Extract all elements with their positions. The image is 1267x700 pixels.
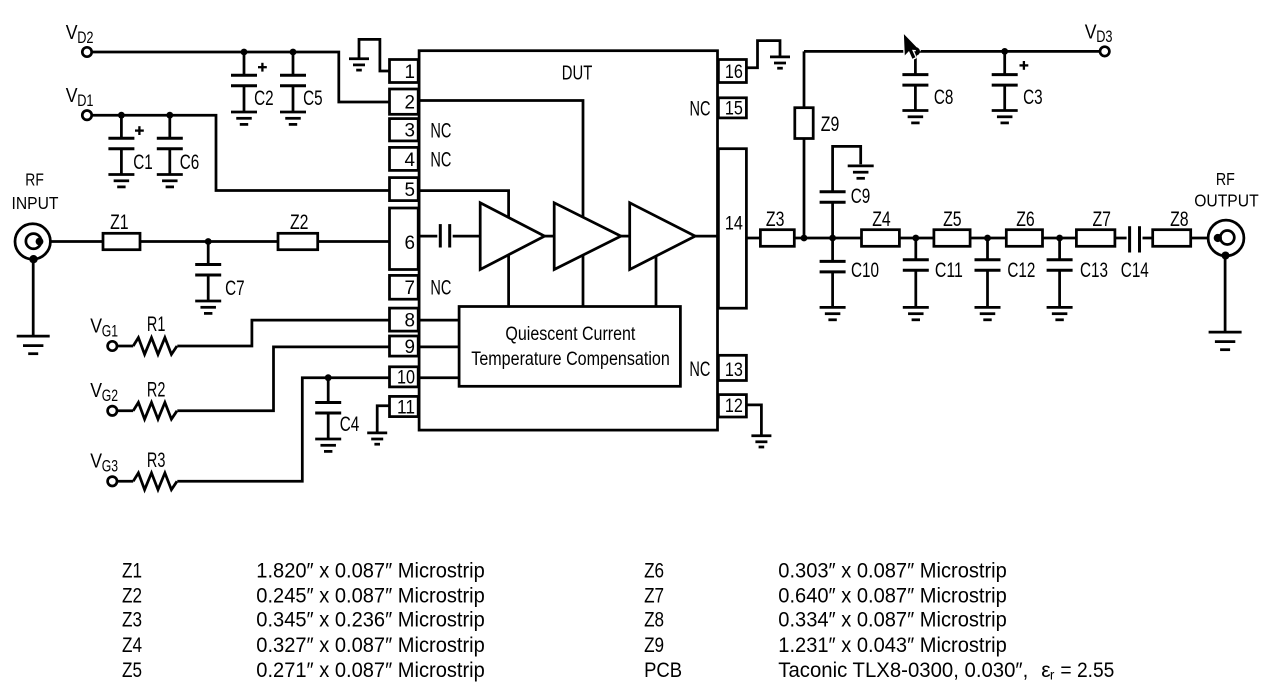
wire R1 to pin 8 [177,320,389,346]
svg-text:0.271″ x 0.087″ Microstrip: 0.271″ x 0.087″ Microstrip [256,659,485,682]
svg-text:Z3: Z3 [122,609,142,632]
wire pin 14 to Z3 [746,237,760,240]
svg-text:C13: C13 [1080,259,1108,282]
wire output connector to ground [1224,257,1227,332]
node VD1/C6 junction [166,112,173,119]
capacitor C10 [820,238,879,320]
wire A2 to compensation block [582,255,585,306]
wire Z7 to C14 [1115,237,1127,240]
NC label pin 7 [430,276,451,299]
capacitor C1 [108,115,152,187]
wire pin 8 to compensation block [418,319,459,322]
svg-text:0.245″ x 0.087″ Microstrip: 0.245″ x 0.087″ Microstrip [256,584,485,607]
svg-text:10: 10 [397,368,415,389]
svg-text:Z4: Z4 [872,208,891,231]
svg-text:C2: C2 [254,87,274,110]
svg-text:C1: C1 [133,151,153,174]
quiescent current block [459,307,680,387]
svg-text:Z8: Z8 [1170,208,1189,231]
impedance Z6 [1006,208,1042,246]
svg-text:G3: G3 [102,458,118,476]
terminal VD1 [66,85,94,120]
capacitor C3 [992,51,1043,123]
pin 7 [390,275,419,299]
ground RF input [17,336,50,354]
svg-text:Temperature Compensation: Temperature Compensation [471,348,670,370]
svg-text:C6: C6 [180,151,200,174]
svg-text:0.334″ x 0.087″ Microstrip: 0.334″ x 0.087″ Microstrip [778,609,1007,632]
terminal VD2 [66,22,94,57]
svg-text:12: 12 [725,396,743,417]
NC label pin 3 [430,119,451,142]
node C3 junction [1001,48,1008,55]
wire coupling cap to amp A1 [453,235,481,238]
svg-text:1.820″ x 0.087″ Microstrip: 1.820″ x 0.087″ Microstrip [256,560,485,583]
wire input connector to Z1 [50,240,103,243]
wire Z4 to Z5 [899,237,934,240]
impedance Z5 [934,208,970,246]
svg-text:Z3: Z3 [766,208,785,231]
capacitor C14 [1121,226,1149,282]
svg-text:C8: C8 [934,86,954,109]
svg-text:4: 4 [405,150,416,171]
pin 12 [718,395,746,418]
svg-text:Z4: Z4 [122,634,142,657]
capacitor C7 [195,242,244,314]
svg-text:0.640″ x 0.087″ Microstrip: 0.640″ x 0.087″ Microstrip [778,584,1007,607]
svg-text:Z8: Z8 [644,609,664,632]
wire pin 11 to ground [377,406,389,433]
pin 5 [390,178,419,201]
wire R3 to pin 10 [177,378,389,482]
svg-text:Z6: Z6 [1016,208,1034,231]
svg-text:Z5: Z5 [122,659,142,682]
svg-text:13: 13 [725,360,743,381]
op-amp A3 [630,203,696,270]
svg-text:0.345″ x 0.236″ Microstrip: 0.345″ x 0.236″ Microstrip [256,609,485,632]
pin 16 [718,60,746,84]
node C13 junction [1056,235,1063,242]
wire Z1 to Z2 [140,240,278,243]
ground pin 1 [349,59,369,70]
capacitor C6 [157,115,199,187]
svg-text:G2: G2 [102,387,118,405]
svg-text:15: 15 [725,99,743,120]
connector J1 RF input [15,224,50,264]
pin 10 [390,367,419,389]
terminal VD3 [1085,21,1113,56]
wire Z5 to Z6 [970,237,1006,240]
pin 1 [390,60,419,84]
svg-text:C12: C12 [1007,259,1035,282]
pin 3 [390,119,419,142]
ground RF output [1209,332,1242,350]
svg-text:Z7: Z7 [644,584,664,607]
svg-text:9: 9 [405,337,416,358]
svg-text:14: 14 [725,214,743,235]
resistor R2 [117,378,177,419]
capacitor C11 [903,238,963,320]
capacitor C9 to ground hook [820,146,874,238]
svg-text:Z9: Z9 [644,634,664,657]
svg-text:NC: NC [430,148,451,171]
svg-text:OUTPUT: OUTPUT [1194,191,1259,211]
wire C14 to Z8 [1143,237,1153,240]
NC label pin 4 [430,148,451,171]
impedance Z1 [103,211,140,250]
op-amp A1 [480,203,544,270]
pin 9 [390,336,419,358]
NC label pin 15 [690,98,711,121]
svg-text:Z2: Z2 [122,584,142,607]
node C9 C10 junction [829,235,836,242]
impedance Z4 [862,208,900,246]
capacitor C12 [975,238,1036,320]
svg-text:C10: C10 [851,259,879,282]
capacitor C2 [231,52,274,124]
NC label pin 13 [689,358,710,381]
svg-text:D2: D2 [77,29,93,47]
wire VD2 to pin 2 [92,52,390,102]
impedance Z3 [760,208,794,246]
svg-text:R1: R1 [147,313,166,336]
pin 11 [390,396,419,418]
capacitor C4 [315,378,359,452]
wire pin 1 to ground [359,39,389,71]
svg-text:RF: RF [1216,169,1235,189]
svg-text:Z2: Z2 [290,211,309,234]
wire Z6 to Z7 [1043,237,1077,240]
impedance Z2 [278,211,318,250]
pin 2 [390,89,419,114]
impedance Z7 [1076,208,1115,246]
svg-text:7: 7 [405,278,416,299]
svg-text:NC: NC [690,98,711,121]
svg-text:C14: C14 [1121,259,1149,282]
svg-text:R2: R2 [147,378,166,401]
mouse cursor [904,34,920,59]
connector J2 RF output [1208,220,1244,259]
node C7 junction [205,238,212,245]
svg-text:Z1: Z1 [122,560,142,583]
resistor R1 [117,313,177,354]
wire Z9 to output node [803,139,806,239]
svg-text:Z9: Z9 [821,113,840,136]
svg-text:NC: NC [430,276,451,299]
svg-text:C9: C9 [851,185,871,208]
svg-text:G1: G1 [102,322,118,340]
svg-text:R3: R3 [147,449,166,472]
svg-text:3: 3 [405,121,416,142]
pin 4 [390,147,419,170]
wire pin 12 to ground [746,405,761,436]
node Z9 junction [801,235,808,242]
wire Z9 top to VD3 [804,51,1101,138]
svg-text:0.303″ x 0.087″ Microstrip: 0.303″ x 0.087″ Microstrip [778,560,1007,583]
node C11 junction [912,235,919,242]
svg-text:Quiescent Current: Quiescent Current [505,323,635,345]
terminal VG2 [90,380,118,415]
svg-text:1: 1 [405,62,416,83]
svg-text:D3: D3 [1096,28,1112,46]
wire pin 6 to coupling cap [418,235,437,238]
pin 6 [390,208,419,270]
microstrip dimension table [122,560,1114,683]
node C8 junction [912,48,919,55]
wire input connector to ground [32,259,35,336]
svg-text:C5: C5 [303,87,323,110]
RF INPUT label [12,169,59,213]
wire pin 10 to compensation block [418,376,459,379]
terminal VG3 [90,451,118,486]
svg-text:INPUT: INPUT [12,193,59,213]
wire VD1 to pin 5 [92,115,390,190]
svg-text:D1: D1 [77,92,93,110]
svg-text:Z1: Z1 [110,211,129,234]
svg-text:5: 5 [405,180,416,201]
impedance Z8 [1153,208,1191,246]
svg-text:0.327″ x 0.087″ Microstrip: 0.327″ x 0.087″ Microstrip [256,634,485,657]
wire Z3 to Z4 [794,237,861,240]
node VD1/C1 junction [118,112,125,119]
svg-text:Taconic TLX8-0300, 0.030″,: Taconic TLX8-0300, 0.030″, [778,659,1028,682]
svg-text:Z6: Z6 [644,560,664,583]
ground pin 12 [751,436,771,447]
wire A3 to compensation block [655,256,658,306]
svg-text:DUT: DUT [562,62,593,84]
pin 13 [718,355,746,381]
svg-text:C4: C4 [340,413,360,436]
node C4 junction [325,374,332,381]
wire A2 to A3 [621,235,630,238]
DUT IC body [419,51,717,430]
wire pin 2 to amp A2 bias [418,101,583,218]
op-amp A2 [554,203,621,270]
svg-text:r: r [1050,668,1055,683]
pin 8 [390,308,419,331]
node C12 junction [984,235,991,242]
pin 14 [718,149,746,309]
capacitor C13 [1047,238,1108,320]
wire A3 to pin 14 [695,235,719,238]
wire pin 5 to amp A1 bias [418,191,508,218]
svg-text:= 2.55: = 2.55 [1060,659,1114,682]
svg-text:1.231″ x 0.043″ Microstrip: 1.231″ x 0.043″ Microstrip [778,634,1007,657]
capacitor C5 [280,52,323,124]
terminal VG1 [90,315,118,350]
svg-text:11: 11 [397,397,415,418]
wire R2 to pin 9 [177,347,389,411]
svg-text:RF: RF [25,169,44,189]
svg-text:2: 2 [405,93,416,114]
resistor R3 [117,449,177,490]
svg-text:Z7: Z7 [1093,208,1112,231]
svg-text:16: 16 [725,62,743,83]
svg-text:8: 8 [405,310,416,331]
svg-text:Z5: Z5 [943,208,962,231]
wire A1 to A2 [545,235,555,238]
node VD2/C2 junction [241,49,248,56]
RF OUTPUT label [1194,169,1259,211]
wire pin 9 to compensation block [418,346,459,349]
svg-text:PCB: PCB [644,659,682,682]
ground pin 11 [367,433,387,444]
wire Z8 to output connector [1191,237,1210,240]
capacitor C8 [902,51,953,123]
wire Z2 to pin 6 [318,240,390,243]
svg-text:NC: NC [430,119,451,142]
wire A1 to compensation block [507,255,510,307]
svg-text:C3: C3 [1023,86,1043,109]
ground pin 16 [770,57,790,68]
svg-text:C7: C7 [225,277,245,300]
wire pin 16 to ground [746,41,780,68]
svg-text:NC: NC [689,358,710,381]
svg-text:6: 6 [405,233,416,254]
pin 15 [718,98,746,120]
svg-text:C11: C11 [935,259,963,282]
capacitor input coupling [440,224,449,247]
impedance Z9 [795,108,840,139]
node VD2/C5 junction [290,49,297,56]
